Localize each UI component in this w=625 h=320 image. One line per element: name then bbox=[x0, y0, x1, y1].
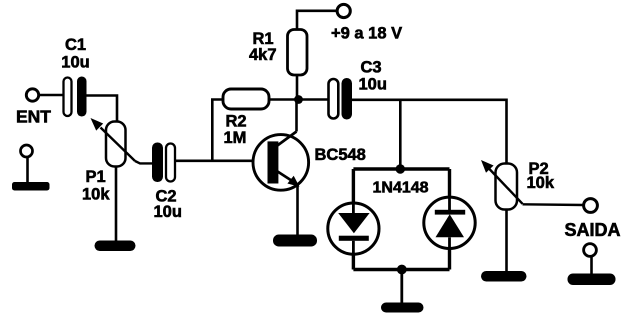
junction collector node bbox=[294, 95, 303, 104]
wire C3 to P2 bbox=[352, 100, 507, 164]
label R2 1M bbox=[224, 113, 247, 148]
wire R1 bottom to node bbox=[296, 75, 299, 100]
ground emitter bbox=[273, 235, 317, 247]
wire diode top rail bbox=[353, 167, 449, 170]
ground P2 bbox=[481, 271, 527, 282]
wire bottom junction to ground bbox=[400, 270, 403, 305]
potentiometer P1 bbox=[91, 118, 136, 167]
label C3 10u bbox=[359, 59, 387, 94]
junction diode top bbox=[396, 164, 405, 173]
capacitor C1 bbox=[64, 77, 87, 117]
capacitor C3 bbox=[329, 78, 353, 120]
wire diode bottom rail bbox=[353, 268, 449, 271]
svg-text:C3: C3 bbox=[361, 59, 382, 77]
wire C1 to P1 top bbox=[87, 96, 118, 123]
svg-text:10u: 10u bbox=[61, 54, 89, 72]
wire SAIDA sleeve to ground bbox=[590, 257, 593, 276]
diode D1 1N4148 bbox=[328, 203, 379, 254]
svg-text:R2: R2 bbox=[226, 113, 247, 131]
ground diodes bbox=[381, 303, 424, 313]
svg-text:C1: C1 bbox=[65, 36, 86, 54]
terminal SAIDA tip bbox=[584, 199, 598, 213]
wire R1 top to +V bbox=[297, 11, 337, 30]
svg-text:10k: 10k bbox=[527, 174, 555, 192]
wire D1 to bottom rail bbox=[352, 253, 355, 270]
wire D2 to bottom rail bbox=[448, 248, 451, 270]
wire P2 to ground bbox=[505, 210, 508, 274]
junction diode bottom bbox=[397, 265, 407, 275]
ground output jack bbox=[568, 274, 616, 286]
terminal +V bbox=[337, 4, 350, 17]
wire C2 to base bbox=[175, 160, 268, 163]
ground input jack bbox=[12, 182, 50, 191]
label R1 4k7 bbox=[249, 30, 277, 64]
resistor R1 bbox=[288, 30, 308, 76]
wire R2 to base node bbox=[212, 100, 223, 161]
capacitor C2 bbox=[152, 143, 175, 183]
svg-text:10u: 10u bbox=[359, 76, 387, 94]
svg-text:P1: P1 bbox=[86, 168, 106, 186]
wire R2 to collector node bbox=[269, 98, 297, 101]
svg-text:+9 a 18 V: +9 a 18 V bbox=[331, 25, 402, 43]
svg-text:10k: 10k bbox=[82, 186, 110, 204]
diode D2 1N4148 bbox=[424, 197, 475, 249]
wire ENT to C1 bbox=[39, 94, 64, 97]
label C2 10u bbox=[154, 188, 182, 222]
potentiometer P2 bbox=[481, 160, 523, 210]
transistor Q1 BC548 bbox=[253, 132, 309, 191]
svg-text:1M: 1M bbox=[224, 129, 247, 147]
wire top rail to D2 bbox=[448, 169, 451, 199]
wire collector to node bbox=[295, 100, 298, 132]
wire top rail to D1 bbox=[352, 169, 355, 204]
wire emitter to ground bbox=[296, 185, 299, 238]
resistor R2 bbox=[223, 89, 269, 109]
terminal SAIDA sleeve bbox=[584, 244, 597, 257]
label P2 10k bbox=[527, 160, 555, 192]
terminal ENT jack sleeve bbox=[21, 145, 33, 157]
svg-text:10u: 10u bbox=[154, 203, 182, 221]
label P1 10k bbox=[82, 168, 110, 204]
wire P1 to ground bbox=[115, 167, 118, 243]
wire sleeve to ground bbox=[26, 157, 29, 184]
svg-text:BC548: BC548 bbox=[315, 146, 366, 164]
svg-text:SAIDA: SAIDA bbox=[565, 220, 621, 240]
svg-text:ENT: ENT bbox=[16, 106, 51, 126]
wire P2 wiper to SAIDA bbox=[523, 203, 584, 206]
wire node to C3 bbox=[297, 98, 329, 101]
terminal ENT jack tip bbox=[26, 89, 38, 101]
svg-text:4k7: 4k7 bbox=[249, 46, 277, 64]
ground P1 bbox=[95, 241, 136, 252]
svg-text:1N4148: 1N4148 bbox=[373, 180, 429, 197]
wire output node to diodes bbox=[399, 100, 402, 169]
label C1 10u bbox=[61, 36, 89, 72]
wire P1 wiper to C2 bbox=[135, 161, 153, 163]
